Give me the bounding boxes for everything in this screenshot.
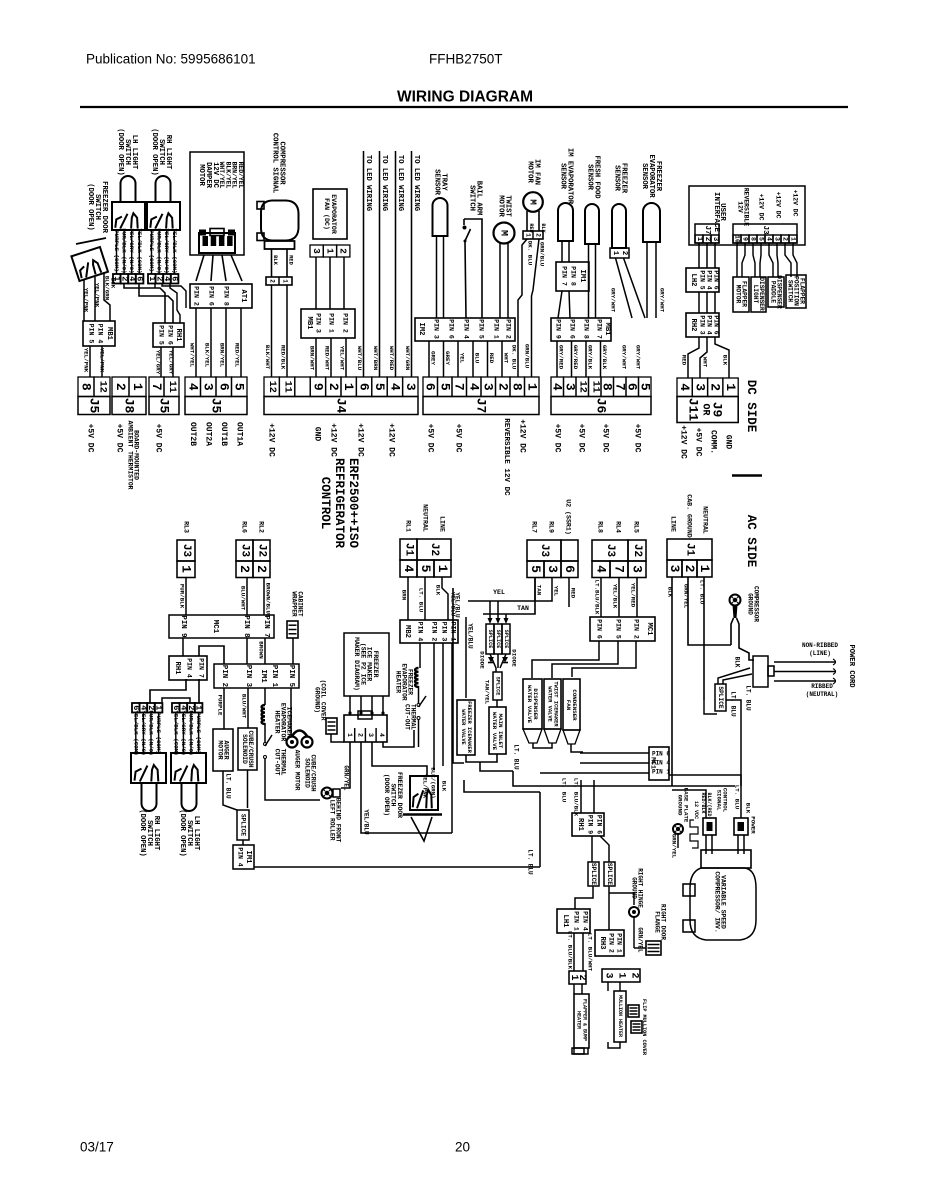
svg-text:2: 2 [254,565,269,573]
svg-text:SENSOR: SENSOR [586,164,594,191]
svg-text:RH1: RH1 [174,329,182,343]
svg-text:LT. BLU: LT. BLU [745,685,752,711]
svg-text:SIGNAL: SIGNAL [716,790,723,811]
svg-text:WRAPPER: WRAPPER [291,591,298,617]
svg-text:PIN 8: PIN 8 [570,266,577,286]
svg-text:DIODE: DIODE [511,649,518,667]
svg-text:1: 1 [695,237,703,242]
svg-text:3: 3 [603,972,614,978]
svg-text:GROUND: GROUND [631,877,638,899]
svg-text:WHT/YEL: WHT/YEL [189,343,196,368]
svg-text:J2: J2 [256,544,268,557]
svg-text:BLK: BLK [435,585,442,596]
svg-text:PIN 4: PIN 4 [582,911,589,931]
svg-text:20: 20 [455,1140,470,1155]
svg-text:YEL/BLU: YEL/BLU [363,809,370,835]
svg-text:TAN: TAN [517,605,529,612]
svg-text:IM1: IM1 [244,851,252,865]
svg-text:BLK: BLK [441,781,448,792]
svg-text:GND: GND [313,427,322,442]
svg-text:TWIST ICEMAKER: TWIST ICEMAKER [553,681,559,727]
svg-text:GRN/BLU: GRN/BLU [539,242,546,267]
svg-text:PIN 4: PIN 4 [237,847,244,866]
svg-text:DK. BLU: DK. BLU [527,241,534,266]
svg-text:POWER: POWER [750,816,757,834]
svg-text:BRN: BRN [401,590,408,601]
svg-text:+5V DC: +5V DC [601,424,610,453]
svg-text:J11: J11 [686,398,701,422]
svg-text:10: 10 [734,235,741,243]
svg-text:(DOOR OPEN): (DOOR OPEN) [138,809,146,856]
svg-text:WHT/BRN: WHT/BRN [372,346,379,371]
svg-text:REVERSIBLE 12V DC: REVERSIBLE 12V DC [502,418,510,496]
svg-text:1: 1 [282,279,289,283]
svg-text:6: 6 [135,276,145,281]
svg-text:J7: J7 [474,398,489,414]
svg-text:DK. BLU: DK. BLU [511,345,518,370]
svg-text:RH1: RH1 [576,818,584,832]
svg-text:PIN 4: PIN 4 [463,319,470,339]
svg-text:4: 4 [677,383,692,391]
svg-text:WHT/YEL: WHT/YEL [218,162,225,189]
svg-text:LT. BLU/BLK: LT. BLU/BLK [573,778,580,817]
svg-text:+12V DC: +12V DC [356,423,365,457]
svg-text:RL9: RL9 [548,521,555,533]
svg-text:IM2: IM2 [417,323,425,336]
svg-text:7: 7 [612,565,627,573]
svg-text:PIN 5: PIN 5 [287,665,295,688]
svg-text:2: 2 [708,383,723,391]
svg-text:GRN/YEL: GRN/YEL [637,927,644,953]
svg-text:PIN 2: PIN 2 [342,313,349,333]
svg-text:HEATER: HEATER [273,710,280,733]
svg-text:BRN/YEL: BRN/YEL [219,343,226,368]
svg-text:PIN 7: PIN 7 [198,658,205,678]
svg-text:MOTOR: MOTOR [734,285,741,304]
svg-text:SOLENOID: SOLENOID [241,734,248,764]
svg-text:PIN 6: PIN 6 [713,315,720,334]
svg-text:BLK: BLK [540,223,546,233]
svg-text:4: 4 [387,383,402,391]
svg-text:PIN 8: PIN 8 [223,286,230,306]
svg-text:BLK: BLK [722,355,729,366]
svg-text:BLK/(GRN): BLK/(GRN) [430,767,437,798]
svg-text:PIN 2: PIN 2 [431,622,438,642]
svg-text:PURPLE: PURPLE [217,695,224,716]
svg-text:YEL/BLU: YEL/BLU [467,623,474,649]
svg-text:1: 1 [341,383,356,391]
svg-text:WHT: WHT [503,353,510,364]
svg-text:PIN 1: PIN 1 [652,769,670,776]
svg-text:PIN 7: PIN 7 [262,615,270,637]
svg-text:5: 5 [528,565,543,573]
svg-text:GRY/BLK: GRY/BLK [587,345,594,370]
svg-text:J3: J3 [604,544,616,558]
svg-text:POWER CORD: POWER CORD [847,644,855,688]
svg-text:YEL/RED: YEL/RED [630,583,637,608]
svg-text:PIN 3: PIN 3 [441,622,448,642]
svg-text:GREY: GREY [444,351,451,365]
svg-text:Publication No: 5995686101: Publication No: 5995686101 [86,52,256,67]
svg-text:GRN/BLU: GRN/BLU [524,344,531,369]
svg-text:GRY/BLK: GRY/BLK [601,345,608,370]
svg-text:LH1: LH1 [561,915,569,929]
svg-text:12: 12 [97,381,108,393]
svg-text:OUT2B: OUT2B [188,422,197,446]
svg-text:+12V DC: +12V DC [775,192,782,219]
svg-text:COMPRESSOR/ INV.: COMPRESSOR/ INV. [714,871,721,932]
svg-text:PIN 1: PIN 1 [616,933,623,953]
svg-text:4: 4 [466,383,481,391]
svg-text:+12V DC: +12V DC [518,419,527,453]
svg-text:PIN 3: PIN 3 [244,665,252,688]
svg-text:FFHB2750T: FFHB2750T [429,52,503,67]
svg-text:RED/BLK: RED/BLK [700,792,706,813]
svg-text:11: 11 [282,381,293,393]
svg-text:+5V DC: +5V DC [694,428,703,457]
svg-text:PIN 3: PIN 3 [699,315,706,334]
svg-text:TO LED WIRING: TO LED WIRING [380,155,388,211]
svg-text:AT1: AT1 [239,290,247,304]
svg-text:PIN 7: PIN 7 [596,319,603,339]
svg-text:PIN 4: PIN 4 [97,324,104,344]
svg-text:TO LED WIRING: TO LED WIRING [396,155,404,211]
svg-text:MOTOR: MOTOR [216,740,223,759]
svg-text:BLK/(RED): BLK/(RED) [706,792,712,819]
svg-text:3: 3 [201,383,216,391]
svg-text:3: 3 [711,237,719,241]
svg-text:1: 1 [697,565,712,573]
svg-text:J3: J3 [538,544,550,558]
svg-text:SENSOR: SENSOR [640,163,648,190]
svg-text:GRY/WHT: GRY/WHT [635,345,642,370]
svg-text:BLU/WHT: BLU/WHT [240,586,247,611]
svg-text:RL5: RL5 [633,521,640,533]
svg-text:5: 5 [758,237,765,241]
svg-text:WHT/BLU: WHT/BLU [356,346,363,371]
svg-text:2: 2 [113,383,128,391]
svg-text:1: 1 [525,233,532,237]
svg-text:SPLICE: SPLICE [590,863,597,886]
svg-text:+5V DC: +5V DC [454,424,463,453]
svg-text:8: 8 [79,383,94,391]
svg-text:+12V DC: +12V DC [329,423,338,457]
svg-text:2: 2 [535,233,542,237]
svg-text:RED: RED [570,588,577,599]
svg-text:PIN 6: PIN 6 [208,286,215,306]
svg-text:4: 4 [766,237,773,241]
svg-text:PIN 5: PIN 5 [88,324,95,344]
svg-text:PIN 9: PIN 9 [555,319,562,339]
svg-text:LEFT ROLLER: LEFT ROLLER [329,800,336,841]
svg-text:5: 5 [437,383,452,391]
svg-text:SPLICE: SPLICE [487,630,493,649]
svg-text:LH2: LH2 [689,274,697,287]
svg-text:5: 5 [637,383,652,391]
svg-text:+5V DC: +5V DC [633,424,642,453]
svg-text:GND: GND [724,435,733,450]
svg-text:MB1: MB1 [603,323,611,337]
svg-text:M: M [528,199,539,205]
svg-text:YEL: YEL [553,586,560,597]
svg-text:7: 7 [149,383,164,391]
svg-text:MB1: MB1 [305,317,313,331]
svg-text:RH2: RH2 [689,319,697,332]
svg-text:J5: J5 [157,398,172,414]
svg-text:SWITCH: SWITCH [787,280,794,303]
svg-text:PIN 3: PIN 3 [315,313,322,333]
svg-text:PIN 6: PIN 6 [448,319,455,339]
svg-text:SOLENOID: SOLENOID [304,758,311,788]
svg-text:5: 5 [372,383,387,391]
svg-text:FAN (DC): FAN (DC) [323,198,330,230]
svg-text:2: 2 [237,565,252,573]
svg-text:RL1: RL1 [405,520,412,532]
svg-text:RL6: RL6 [241,521,248,533]
svg-text:PIN 1: PIN 1 [493,319,500,339]
svg-text:J3: J3 [180,544,192,558]
svg-text:2: 2 [269,279,276,283]
svg-text:YEL: YEL [459,353,466,364]
svg-text:PIN 6: PIN 6 [652,751,670,758]
svg-text:BROWN/BLUE: BROWN/BLUE [265,583,272,618]
svg-text:RL3: RL3 [183,521,190,533]
svg-text:LT.BLU/BLK: LT.BLU/BLK [594,580,601,615]
svg-text:RED: RED [288,255,294,265]
svg-text:(DOOR OPEN): (DOOR OPEN) [116,128,124,175]
svg-text:HEATER: HEATER [395,671,402,694]
svg-text:MOTOR: MOTOR [197,164,205,186]
svg-text:OUT1B: OUT1B [219,422,228,446]
svg-text:PIN 6: PIN 6 [569,319,576,339]
svg-text:CONTROL: CONTROL [318,477,332,530]
svg-text:YEL/WHT: YEL/WHT [339,346,346,371]
svg-text:2: 2 [495,383,510,391]
svg-text:3: 3 [630,565,645,573]
svg-text:SPLICE: SPLICE [503,630,509,649]
svg-text:12 VDC: 12 VDC [693,801,699,819]
svg-text:NEUTRAL: NEUTRAL [702,506,709,534]
svg-text:RED/YEL: RED/YEL [234,343,241,368]
svg-text:+12V DC: +12V DC [387,423,396,457]
svg-text:J2: J2 [428,543,440,556]
svg-text:PADDLE: PADDLE [769,281,776,304]
svg-text:+12V DC: +12V DC [792,190,799,217]
svg-text:LT. BLU: LT. BLU [734,785,741,810]
svg-text:RED: RED [681,355,688,366]
svg-text:GROUND: GROUND [747,593,754,615]
svg-text:BLK: BLK [110,278,117,289]
svg-text:2: 2 [326,383,341,391]
svg-text:U2 (SSR1): U2 (SSR1) [565,499,572,535]
svg-text:WATER VALVE: WATER VALVE [491,712,498,751]
svg-text:LT. BLU: LT. BLU [513,744,520,770]
svg-text:+12V DC: +12V DC [267,423,276,457]
svg-text:LT. BLU: LT. BLU [527,849,534,875]
svg-text:PIN 2: PIN 2 [193,286,200,306]
svg-text:(DOOR OPEN): (DOOR OPEN) [86,183,94,230]
svg-text:MB1: MB1 [105,327,113,341]
svg-text:7: 7 [452,383,467,391]
svg-text:BLK: BLK [745,803,752,814]
svg-text:PIN 8: PIN 8 [583,319,590,339]
svg-text:IM1: IM1 [259,669,267,683]
svg-text:6: 6 [216,383,231,391]
svg-text:3: 3 [774,237,781,241]
svg-text:+5V DC: +5V DC [553,424,562,453]
svg-text:MULLION HEATER: MULLION HEATER [617,995,623,1037]
svg-text:LT. BLU: LT. BLU [561,778,568,803]
svg-text:3: 3 [367,733,374,737]
svg-text:2: 2 [620,251,628,255]
svg-text:J6: J6 [594,398,609,414]
svg-text:4: 4 [594,565,609,573]
svg-text:WIRING DIAGRAM: WIRING DIAGRAM [397,89,533,106]
svg-text:MB2: MB2 [403,625,411,638]
svg-text:11: 11 [166,381,177,393]
svg-text:12: 12 [266,381,277,393]
svg-text:+12V DC: +12V DC [679,425,688,459]
svg-text:AC SIDE: AC SIDE [744,515,758,568]
svg-text:6: 6 [357,383,372,391]
svg-text:PIN 1: PIN 1 [270,665,278,688]
svg-text:3: 3 [692,383,707,391]
svg-text:PIN 8: PIN 8 [242,615,250,638]
svg-text:8: 8 [750,237,757,241]
svg-text:PIN 2: PIN 2 [633,619,640,639]
svg-text:3: 3 [545,565,560,573]
svg-text:(DOOR OPEN): (DOOR OPEN) [383,774,390,816]
svg-text:YEL: YEL [493,589,505,596]
svg-text:PIN 1: PIN 1 [573,911,580,931]
svg-text:OUT1A: OUT1A [235,422,244,446]
svg-text:3: 3 [311,248,322,254]
svg-text:SPLICE: SPLICE [717,686,724,709]
svg-text:GRY/RED: GRY/RED [572,345,579,370]
svg-text:3: 3 [667,565,682,573]
svg-text:SENSOR: SENSOR [433,169,441,196]
svg-text:SENSOR: SENSOR [559,163,567,190]
svg-text:1: 1 [130,383,145,391]
svg-text:SPLICE: SPLICE [495,677,501,696]
svg-text:PIN 4: PIN 4 [417,622,424,642]
svg-text:BLU: BLU [474,353,481,364]
svg-text:4: 4 [378,733,385,737]
svg-text:RED: RED [528,223,534,232]
svg-text:PIN 5: PIN 5 [478,319,485,339]
svg-text:LT. BLU: LT. BLU [225,773,232,799]
svg-text:YEL/PNK: YEL/PNK [422,774,429,799]
svg-text:+5V DC: +5V DC [115,424,124,453]
svg-text:2: 2 [357,733,364,737]
svg-text:J1: J1 [403,543,415,557]
svg-text:J3: J3 [239,544,251,558]
svg-text:(LINE): (LINE) [809,650,831,657]
svg-text:PIN 5: PIN 5 [699,270,706,289]
svg-text:J3: J3 [761,225,769,235]
svg-text:PIN 4: PIN 4 [652,760,670,767]
svg-text:TO LED WIRING: TO LED WIRING [364,155,372,211]
svg-text:PIN 6: PIN 6 [713,270,720,289]
svg-text:5: 5 [418,565,433,573]
svg-text:+5V DC: +5V DC [577,424,586,453]
svg-text:1: 1 [611,251,619,256]
svg-text:8: 8 [510,383,525,391]
svg-text:PIN 4: PIN 4 [706,270,713,289]
svg-text:3: 3 [403,383,418,391]
svg-text:BROWN: BROWN [258,641,265,659]
svg-text:MOTOR: MOTOR [526,161,534,183]
svg-text:GRY/RED: GRY/RED [558,345,565,370]
svg-text:SENSOR: SENSOR [613,165,621,192]
svg-text:J7: J7 [703,225,711,235]
svg-text:DIODE: DIODE [479,651,486,669]
svg-text:AUGER MOTOR: AUGER MOTOR [294,750,301,791]
svg-text:(NEUTRAL): (NEUTRAL) [806,691,838,698]
svg-text:PIN 6: PIN 6 [596,619,603,639]
svg-text:J9: J9 [710,402,725,418]
svg-text:GRN/YEL: GRN/YEL [671,834,678,859]
svg-text:J8: J8 [122,398,137,414]
svg-text:PIN 1: PIN 1 [328,313,335,333]
svg-text:TAN: TAN [536,585,543,596]
svg-text:RL4: RL4 [615,521,622,533]
svg-text:NON-RIBBED: NON-RIBBED [802,642,838,649]
svg-text:03/17: 03/17 [80,1140,114,1155]
svg-text:GROUND: GROUND [677,795,684,816]
svg-text:1: 1 [346,733,353,737]
svg-text:1: 1 [723,383,738,391]
svg-text:(DOOR OPEN): (DOOR OPEN) [150,128,158,175]
svg-text:2: 2 [703,237,711,241]
svg-text:GROUND): GROUND) [314,687,321,713]
svg-text:2: 2 [682,565,697,573]
svg-text:LINE: LINE [670,516,677,532]
svg-text:9: 9 [742,237,749,241]
svg-text:J5: J5 [87,398,102,414]
svg-text:PIN 2: PIN 2 [608,933,615,953]
svg-text:RH3: RH3 [598,937,606,950]
svg-text:GRY/WHT: GRY/WHT [610,288,617,313]
svg-text:COMM.: COMM. [709,430,718,454]
svg-text:NEUTRAL: NEUTRAL [422,504,429,532]
svg-text:YEL/BLK: YEL/BLK [612,584,619,609]
svg-text:PUR/BLK: PUR/BLK [179,584,186,609]
svg-text:BLK: BLK [272,255,278,265]
svg-text:SPLICE: SPLICE [606,863,613,886]
svg-text:RH1: RH1 [173,662,181,676]
svg-text:+5V DC: +5V DC [426,424,435,453]
svg-text:PIN 3: PIN 3 [433,319,440,339]
svg-text:GREY: GREY [430,351,437,365]
svg-text:J4: J4 [334,398,349,414]
svg-text:2: 2 [576,974,587,980]
svg-text:FAN: FAN [565,700,572,711]
svg-text:CONTROL SIGNAL: CONTROL SIGNAL [271,133,279,193]
svg-text:BLK/WHT: BLK/WHT [264,345,271,370]
svg-text:9: 9 [310,383,325,391]
svg-text:IM1: IM1 [578,270,586,284]
svg-text:CUT-OUT: CUT-OUT [273,749,280,776]
svg-text:AMBIENT THERMISTOR: AMBIENT THERMISTOR [126,420,133,489]
svg-text:6: 6 [170,276,180,281]
svg-text:OR: OR [700,403,711,415]
svg-text:CUT-OUT: CUT-OUT [404,704,411,730]
svg-text:PIN 4: PIN 4 [706,315,713,334]
svg-text:4: 4 [401,565,416,573]
svg-text:RED/BLK: RED/BLK [280,345,287,370]
svg-text:PIN 6: PIN 6 [596,815,603,834]
